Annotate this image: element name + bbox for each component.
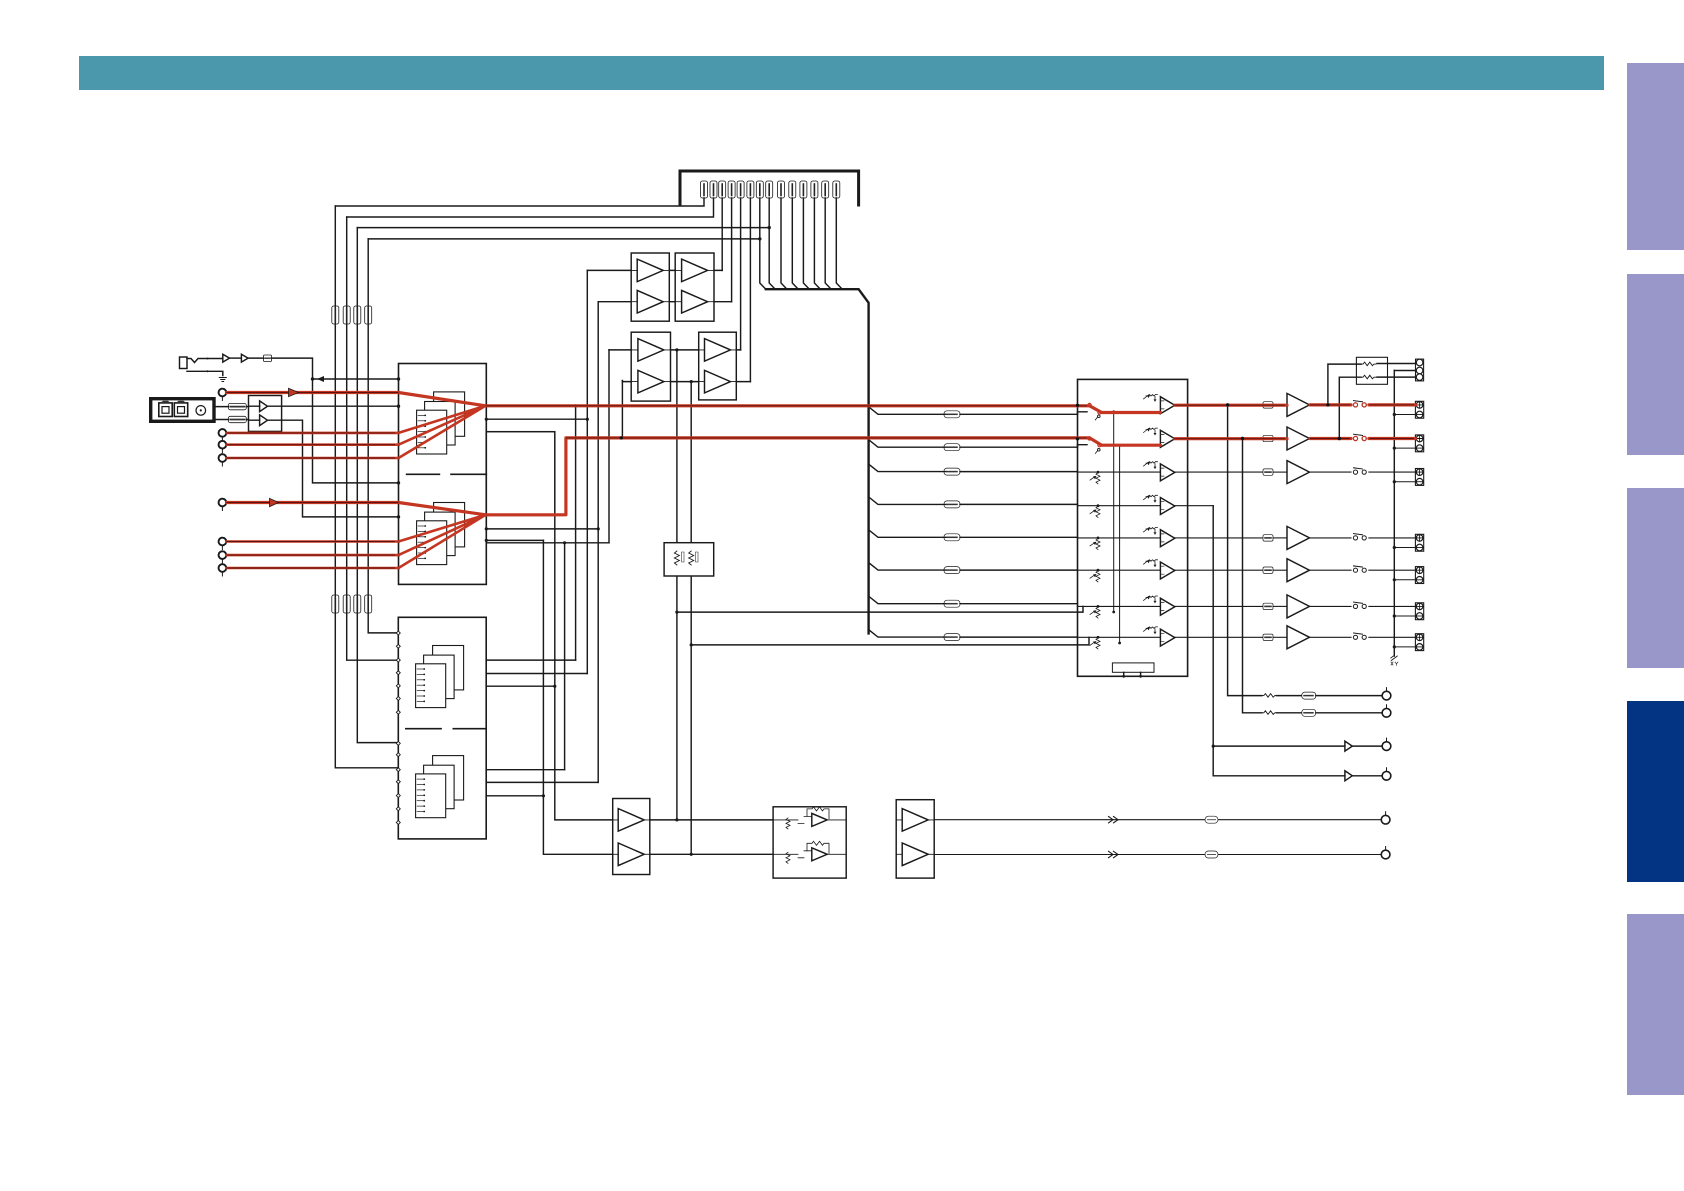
common bus end mark: [1391, 656, 1398, 661]
resistor R-OPEN2: [689, 551, 694, 565]
wire terminal common 3: [1394, 481, 1416, 483]
label MIC: [264, 355, 272, 362]
net v677 (through OPEN R): [676, 350, 678, 820]
wire pin3 to buffer B out1: [721, 198, 723, 270]
speaker switch 3: [1353, 470, 1357, 474]
card stack U2 upper: [433, 646, 464, 690]
label row 1: [1263, 402, 1273, 408]
wire terminal common 6: [1394, 615, 1416, 617]
zone out jack: [1382, 742, 1391, 751]
rec-out resistor box: [1356, 357, 1387, 384]
wire pin2 to bus line2: [347, 198, 714, 217]
side tab 4 (active): [1627, 701, 1684, 882]
wire tuner R: [214, 419, 228, 421]
op-amp row 4: [1160, 498, 1174, 515]
op-amp U_F: [773, 819, 798, 821]
wire terminal common 4: [1394, 547, 1416, 549]
net v1242: [1243, 439, 1262, 713]
speaker terminals 6: [1415, 603, 1423, 620]
connector J_top bracket: [680, 171, 859, 205]
wire zone row a: [1213, 745, 1345, 747]
label row 3: [1263, 469, 1273, 475]
wire U1 out4: [486, 539, 543, 541]
vertical net v564: [564, 543, 566, 770]
wire mic branch to DSP1 row: [313, 379, 399, 483]
selector internal bus b: [1119, 445, 1121, 643]
speaker switch 6: [1353, 604, 1357, 608]
label row 4: [1263, 535, 1273, 541]
net label SP bus row 3: [944, 468, 960, 475]
zone buffer: [1345, 741, 1352, 751]
output row 4: [1188, 537, 1263, 539]
U2 right rows: [486, 659, 575, 661]
jack break symbol: [1109, 817, 1119, 823]
op-amp network box F: [773, 807, 846, 878]
net label SP bus row 6: [944, 567, 960, 574]
net label: [1205, 816, 1218, 823]
speaker switch 1: [1353, 403, 1357, 407]
junction dots on red nets: [1326, 403, 1329, 406]
antenna terminal 1: [159, 403, 172, 417]
selector row 3: [1078, 471, 1161, 473]
speaker terminals 3: [1415, 469, 1423, 486]
buffer box E: [613, 799, 650, 875]
selector row 5: [1078, 537, 1161, 539]
vertical net v587: [586, 270, 588, 673]
DSP block U1: [399, 364, 487, 585]
wire rec outs: [1377, 364, 1416, 378]
wire to selector row7: [677, 606, 1083, 612]
wire bus line4 to pin7: [368, 238, 760, 240]
side tab 2: [1627, 274, 1684, 455]
tuner unit box: [151, 399, 214, 422]
wire rec feed R: [1339, 377, 1361, 438]
buffer box B: [675, 253, 714, 321]
red switch marks: [1088, 403, 1091, 406]
red arrow in1: [289, 388, 299, 396]
wire U1 out3: [486, 528, 598, 530]
op-amp row 1: [1160, 397, 1174, 414]
wires A-B interconnect: [669, 270, 675, 301]
wire terminal common 5: [1394, 579, 1416, 581]
OPEN resistor box: [664, 543, 714, 576]
selector row 1: [1090, 405, 1161, 412]
op-amp row 5: [1160, 530, 1174, 547]
vertical net v554: [555, 515, 613, 820]
tuner buffer box: [249, 396, 282, 432]
wire rowP1: [650, 819, 773, 821]
antenna terminal 2: [174, 403, 187, 417]
bus line labels upper: [332, 306, 339, 324]
vertical net v609: [608, 350, 610, 543]
resistor Rrec1: [1361, 362, 1376, 366]
red arrow in5: [270, 498, 279, 506]
collector bus to DSP: [760, 198, 766, 289]
selector row 2: [1090, 439, 1161, 446]
selector row 6: [1078, 569, 1161, 571]
vertical net v598: [597, 302, 599, 783]
label TUNER_R: [228, 416, 246, 422]
selector internal bus a: [1113, 412, 1115, 612]
label PRE-OUT: [1302, 709, 1316, 716]
resistor Rrec2: [1361, 375, 1376, 379]
vertical net v575: [575, 406, 577, 660]
header bar: [79, 56, 1604, 90]
wire bottom row a: [934, 819, 1381, 821]
pre-out jack: [1382, 691, 1391, 700]
label row 2: [1263, 435, 1273, 441]
wire U1 out5: [486, 542, 609, 544]
power amp 7: [1287, 626, 1310, 649]
output row 1: [1188, 404, 1263, 406]
net label SP bus row 7: [944, 600, 960, 607]
output row 6: [1188, 605, 1263, 607]
wire pin1 to bus line1: [335, 198, 704, 206]
power amp 6: [1287, 595, 1310, 618]
net label SP bus row 2: [944, 444, 960, 451]
ground: [219, 378, 226, 382]
jack break symbol: [1109, 851, 1119, 857]
input jack 3: [219, 441, 227, 449]
coax jack: [196, 406, 206, 416]
output row 7: [1188, 636, 1263, 638]
buffer box A: [631, 253, 669, 321]
card stack U1 lower: [434, 503, 465, 547]
speaker terminals 2: [1415, 435, 1423, 452]
op-amp row 7: [1160, 598, 1174, 615]
net label SP bus row 1: [944, 411, 960, 418]
speaker switch 4: [1353, 536, 1357, 540]
wires B outputs: [714, 270, 732, 301]
resistor pre-out: [1262, 711, 1277, 715]
routing box: [486, 432, 555, 516]
net label SP bus row 4: [944, 501, 960, 508]
wire to selector row8: [691, 637, 1089, 645]
buffer box C: [631, 332, 670, 401]
bus branches to input selector: [869, 407, 946, 415]
input jack 4: [219, 454, 227, 462]
wires into C: [609, 350, 631, 382]
net label: [1205, 851, 1218, 858]
speaker switch 2: [1353, 436, 1357, 440]
card stack U2 lower: [433, 756, 464, 800]
speaker terminals 4: [1415, 534, 1423, 551]
red main front R: [486, 438, 1416, 515]
speaker terminals 1: [1415, 401, 1423, 418]
bus line 4: [368, 239, 398, 633]
label row 7: [1263, 634, 1273, 640]
wire pin4 to buffer B out2: [731, 198, 733, 302]
red path input1: [227, 393, 486, 406]
op-amp row 2: [1160, 430, 1174, 447]
wire pin5 to buffer D out1: [740, 198, 742, 350]
speaker terminals 7: [1415, 634, 1423, 651]
pre-out jack: [1382, 709, 1391, 718]
wire rowP2: [650, 853, 773, 855]
op-amp U_F: [773, 853, 798, 855]
wire bus line3 to pin8: [357, 227, 769, 229]
bus line 2: [347, 217, 399, 660]
input jack 5: [219, 499, 227, 507]
net label SP bus row 5: [944, 534, 960, 541]
side tab 5: [1627, 914, 1684, 1095]
input jack 6: [219, 538, 227, 546]
U1 separator dashes: [407, 473, 487, 475]
label row 6: [1263, 603, 1273, 609]
pin labels J_top 1-14: [701, 181, 708, 198]
buffer box D: [699, 332, 737, 400]
output jack: [1381, 850, 1390, 859]
power amp 1: [1287, 393, 1310, 416]
vertical net v543: [543, 540, 612, 854]
red fan u1 top: [227, 406, 486, 458]
net label SP bus row 8: [944, 634, 960, 641]
wires into A: [587, 270, 631, 301]
op-amp row 3: [1160, 464, 1174, 481]
selector row 7: [1078, 605, 1161, 607]
wire terminal common 1: [1394, 414, 1416, 416]
speaker common bus: [1393, 370, 1395, 656]
DSP block U2: [398, 617, 486, 839]
zone out jack: [1382, 772, 1391, 781]
side tab 3: [1627, 488, 1684, 668]
buffer U_tun1: [260, 401, 268, 412]
buffer U_mic2: [241, 354, 248, 362]
net v1227: [1228, 405, 1262, 696]
red fan u1 bottom: [227, 515, 486, 568]
wires C-D interconnect: [671, 350, 699, 382]
resistor R-OPEN1: [674, 551, 679, 565]
speaker switch 5: [1353, 568, 1357, 572]
headphone jack: [180, 357, 188, 369]
buffer U_tun2: [260, 415, 268, 426]
selector block U3: [1078, 379, 1188, 676]
side tab 1: [1627, 63, 1684, 250]
buffer U_mic1: [223, 354, 230, 362]
net v1213 (row4 out): [1213, 506, 1345, 776]
jack sleeve wire to ground: [187, 371, 223, 375]
selector row 4: [1078, 505, 1161, 507]
power amp 3: [1287, 461, 1310, 484]
bus line 1: [335, 206, 398, 768]
input jack 7: [219, 551, 227, 559]
output row 5: [1188, 569, 1263, 571]
zone buffer: [1345, 771, 1352, 781]
label PRE-OUT: [1302, 692, 1316, 699]
input jack 1: [219, 389, 227, 397]
wire terminal common 2: [1394, 447, 1416, 449]
output row 3: [1188, 471, 1263, 473]
selector sub box: [1112, 663, 1154, 672]
output jack: [1381, 815, 1390, 824]
selector row 8: [1078, 636, 1161, 638]
wires D outputs: [736, 350, 750, 382]
red path input5: [227, 503, 486, 515]
wire tuner L: [214, 406, 228, 408]
wire rec feed L: [1328, 364, 1361, 405]
power amp 5: [1287, 559, 1310, 582]
net v691 (through OPEN R): [690, 382, 692, 855]
input jack 8: [219, 564, 227, 572]
wire U1 out1: [486, 418, 587, 420]
vertical net v622: [621, 381, 623, 438]
bus line 3: [357, 228, 398, 743]
op-amp row 8: [1160, 629, 1174, 646]
wire bottom row b: [934, 854, 1381, 856]
card stack U1 upper: [434, 392, 465, 436]
red main front L: [486, 405, 1416, 413]
U1 left pin dots: [397, 378, 400, 381]
label TUNER_L: [228, 403, 246, 409]
wire terminal common 7: [1394, 646, 1416, 648]
label row 5: [1263, 567, 1273, 573]
wire tuner R to DSP1: [282, 420, 399, 517]
speaker switch 7: [1353, 635, 1357, 639]
mic input chain: [187, 359, 222, 363]
U2 left pins: [396, 631, 400, 635]
rec out jacks: [1416, 359, 1424, 381]
buffer box G: [896, 800, 934, 878]
red core lines: [227, 393, 399, 459]
U2 separator dashes: [406, 728, 486, 730]
bus line labels lower: [332, 595, 339, 613]
wire pin6 to buffer D out2: [749, 198, 751, 382]
input jack 2: [219, 429, 227, 437]
output row 2: [1188, 438, 1263, 440]
power amp 2: [1287, 427, 1310, 450]
speaker terminals 5: [1415, 567, 1423, 584]
resistor pre-out: [1262, 694, 1277, 698]
wire tuner L to DSP1: [282, 405, 399, 407]
power amp 4: [1287, 526, 1310, 549]
op-amp row 6: [1160, 562, 1174, 579]
